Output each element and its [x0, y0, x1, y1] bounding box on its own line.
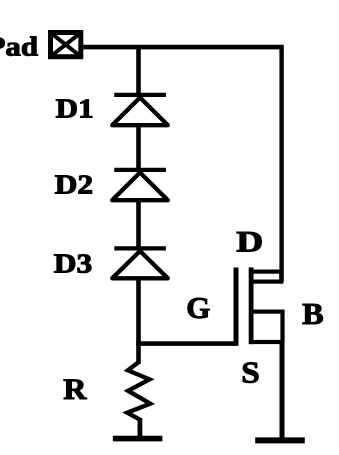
wire: D1 anode to D2 cathode	[136, 125, 141, 170]
transistor M1 channel line	[249, 267, 254, 344]
svg-text:G: G	[186, 290, 210, 325]
diode D3	[112, 248, 168, 278]
ground (left)	[113, 436, 163, 442]
svg-text:Pad: Pad	[0, 30, 38, 61]
wire: gate branch from junction to gate	[136, 341, 236, 346]
transistor M1 source/bulk stub (rectangle)	[251, 312, 282, 342]
svg-text:S: S	[241, 354, 259, 389]
svg-text:D: D	[236, 226, 263, 259]
wire: source down to right ground	[280, 340, 285, 440]
wire: top-right corner down to drain	[279, 47, 283, 282]
pad symbol (box with X)	[51, 33, 81, 57]
svg-text:D2: D2	[55, 169, 94, 200]
transistor M1 gate line	[234, 268, 239, 346]
wire: top junction down to D1 cathode	[136, 47, 141, 95]
svg-text:D1: D1	[56, 92, 94, 123]
transistor M1 drain stub (rectangle)	[251, 272, 281, 282]
wire: D3 anode down to resistor (gate junction on it)	[136, 278, 141, 364]
diode D1	[112, 95, 168, 125]
svg-text:D3: D3	[54, 248, 93, 279]
svg-text:R: R	[63, 373, 87, 406]
wire: resistor to left ground	[137, 418, 142, 439]
svg-text:B: B	[302, 297, 324, 331]
ground (right)	[255, 437, 305, 443]
resistor R	[127, 362, 150, 419]
wire: D2 anode to D3 cathode	[136, 200, 141, 249]
wire: pad to top-right corner	[83, 45, 284, 50]
diode D2	[112, 170, 168, 200]
